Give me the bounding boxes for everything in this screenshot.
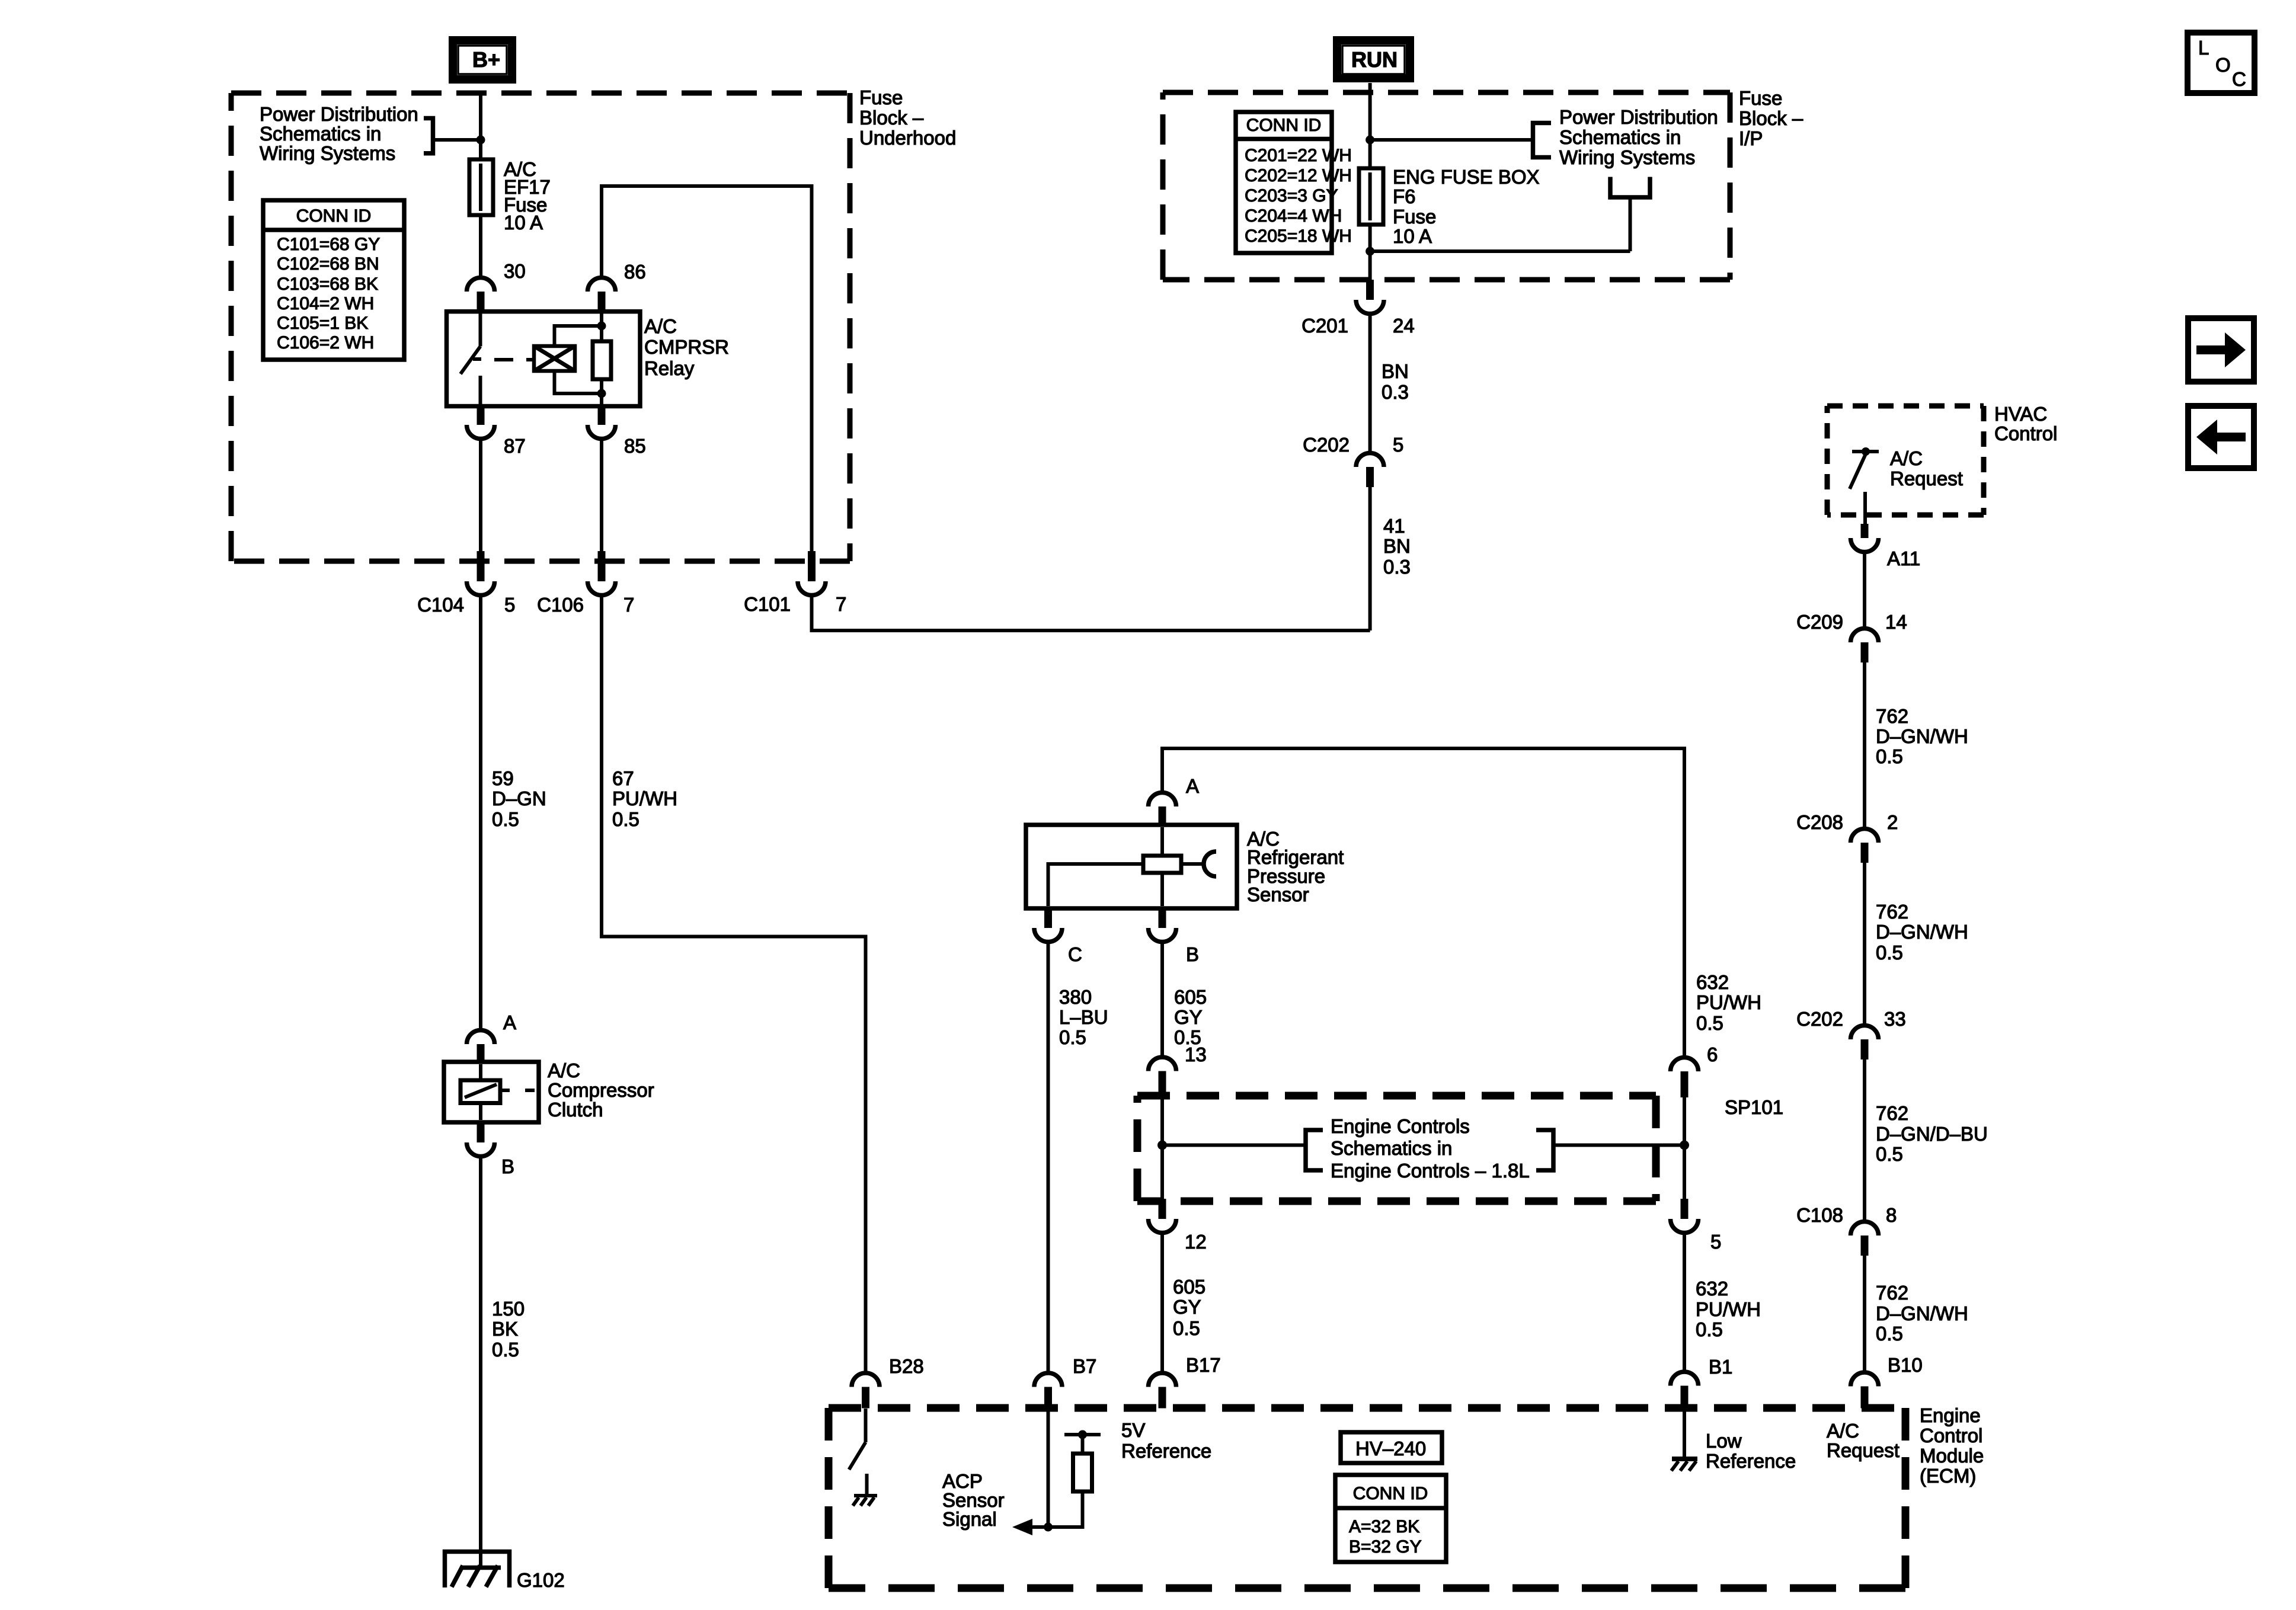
svg-text:33: 33 (1884, 1008, 1906, 1030)
svg-text:C105=1 BK: C105=1 BK (277, 313, 368, 333)
svg-text:B10: B10 (1888, 1354, 1923, 1376)
svg-text:B=32 GY: B=32 GY (1349, 1537, 1422, 1557)
wire fuse to pin 30 (479, 215, 482, 278)
svg-text:C106: C106 (537, 594, 584, 616)
connector B7 (1034, 1355, 1096, 1409)
svg-text:B7: B7 (1073, 1355, 1096, 1377)
svg-text:10 A: 10 A (504, 212, 543, 233)
svg-text:Sensor: Sensor (1247, 884, 1309, 905)
connector pin 85 (588, 405, 646, 457)
svg-text:605: 605 (1174, 986, 1207, 1008)
svg-text:Block –: Block – (1739, 107, 1803, 129)
svg-text:C106=2 WH: C106=2 WH (277, 333, 374, 353)
connector C202 pin 33 (1796, 1008, 1906, 1060)
svg-text:5V: 5V (1121, 1419, 1145, 1441)
wire B+ feed (479, 93, 482, 159)
node splice right junction (1680, 1141, 1689, 1150)
svg-text:C: C (1068, 943, 1082, 965)
wire pin 12 to B17 (1160, 1233, 1164, 1374)
svg-text:380: 380 (1059, 986, 1092, 1008)
label Fuse Block - Underhood (859, 87, 956, 149)
wire label 59 D-GN 0.5 (492, 767, 546, 830)
connector B10 (1851, 1354, 1923, 1409)
svg-text:Request: Request (1890, 468, 1963, 489)
HV-240 reference box (1341, 1432, 1442, 1463)
wire label 762 D-GN/WH 0.5 (2) (1876, 901, 1968, 964)
relay switch blade pin30-87 (461, 313, 481, 404)
relay actuator dashed link (494, 358, 534, 361)
label 5V Reference (1121, 1419, 1211, 1462)
svg-text:D–GN/WH: D–GN/WH (1876, 725, 1968, 747)
svg-text:A: A (503, 1012, 516, 1033)
svg-text:0.5: 0.5 (1696, 1318, 1723, 1340)
wire label 380 L-BU 0.5 (1059, 986, 1108, 1048)
svg-text:SP101: SP101 (1725, 1096, 1783, 1118)
wire sensor B to pin 13 (1160, 942, 1164, 1058)
B1 internal low reference ground (1671, 1409, 1697, 1471)
dashed box HVAC Control (1827, 406, 1984, 515)
svg-text:30: 30 (504, 260, 526, 282)
svg-text:C103=68 BK: C103=68 BK (277, 274, 378, 294)
svg-text:BN: BN (1382, 360, 1409, 382)
svg-text:D–GN/WH: D–GN/WH (1876, 1302, 1968, 1324)
svg-text:B+: B+ (472, 47, 500, 72)
CONN ID table (ECM) (1335, 1475, 1446, 1562)
svg-text:A/C: A/C (1890, 447, 1923, 469)
connector B28 (852, 1355, 924, 1409)
svg-text:Engine Controls: Engine Controls (1331, 1115, 1470, 1137)
label A/C Request (ECM) (1827, 1420, 1900, 1461)
A/C Compressor Clutch box (444, 1062, 539, 1122)
svg-text:59: 59 (492, 767, 514, 789)
svg-text:87: 87 (504, 435, 526, 457)
svg-text:Wiring Systems: Wiring Systems (260, 142, 395, 164)
svg-text:D–GN/D–BU: D–GN/D–BU (1876, 1123, 1988, 1145)
relay internal resistor (593, 312, 611, 404)
svg-text:13: 13 (1185, 1044, 1207, 1065)
svg-text:0.5: 0.5 (612, 808, 639, 830)
svg-text:Engine: Engine (1920, 1404, 1981, 1426)
connector pin 13 (1149, 1044, 1207, 1092)
wire C209 to C208 (1863, 662, 1866, 829)
wire label 632 PU/WH 0.5 (lower) (1696, 1278, 1761, 1340)
connector C106 pin 7 (537, 551, 634, 616)
label Fuse Block - I/P (1739, 87, 1803, 149)
switch B28 internal with ground (849, 1409, 878, 1506)
svg-text:Control: Control (1994, 422, 2057, 444)
svg-text:HV–240: HV–240 (1355, 1438, 1426, 1459)
svg-text:Fuse: Fuse (859, 87, 903, 108)
svg-text:Relay: Relay (644, 357, 695, 379)
svg-text:C205=18 WH: C205=18 WH (1245, 226, 1352, 246)
node splice left junction (1157, 1141, 1167, 1150)
bracket stub to fuse block internal (right lower) (1370, 177, 1650, 252)
navigation arrow right box (2188, 318, 2254, 382)
wire RUN feed (1368, 83, 1372, 168)
svg-text:(ECM): (ECM) (1920, 1465, 1976, 1487)
svg-text:0.5: 0.5 (1876, 1323, 1903, 1345)
wire label 67 PU/WH 0.5 (612, 767, 677, 830)
svg-text:C204=4 WH: C204=4 WH (1245, 206, 1342, 226)
svg-text:B28: B28 (889, 1355, 924, 1377)
bracket to Power Distribution (right upper) (1370, 123, 1551, 158)
svg-text:Control: Control (1920, 1425, 1982, 1446)
connector C101 pin 7 (744, 551, 846, 615)
svg-text:Signal: Signal (942, 1508, 997, 1530)
svg-text:Fuse: Fuse (1739, 87, 1782, 109)
relay coil solenoid box (534, 346, 575, 371)
svg-text:0.5: 0.5 (492, 1339, 519, 1361)
connector C208 pin 2 (1796, 811, 1898, 863)
label A/C CMPRSR Relay (644, 315, 729, 379)
wire label 605 GY 0.5 (upper) (1174, 986, 1207, 1048)
wire sensor C to B7 (1047, 942, 1050, 1374)
wire label 762 D-GN/D-BU 0.5 (1876, 1102, 1988, 1165)
svg-text:41: 41 (1383, 515, 1405, 537)
wire C208 to C202 (1863, 863, 1866, 1026)
wire 87 to C104 (479, 439, 482, 562)
dashed box Engine Control Module ECM (829, 1408, 1905, 1588)
svg-text:C209: C209 (1796, 611, 1843, 633)
connector C202 pin 5 (1303, 434, 1403, 487)
wire label 605 GY 0.5 (lower) (1173, 1276, 1205, 1339)
svg-text:I/P: I/P (1739, 127, 1763, 149)
svg-text:C104: C104 (417, 594, 464, 616)
svg-text:C201=22 WH: C201=22 WH (1245, 146, 1352, 165)
svg-text:0.3: 0.3 (1382, 381, 1409, 403)
svg-text:Power Distribution: Power Distribution (1559, 106, 1718, 128)
svg-text:0.3: 0.3 (1383, 556, 1411, 578)
svg-text:6: 6 (1707, 1044, 1718, 1065)
svg-text:C108: C108 (1796, 1204, 1843, 1226)
wire C101 down and across to RUN branch (812, 596, 1370, 631)
note Power Distribution Schematics in Wiring Systems (left) (260, 103, 418, 164)
wire clutch B to G102 (479, 1157, 482, 1569)
connector sensor pin B (1149, 908, 1200, 965)
svg-text:D–GN: D–GN (492, 788, 546, 809)
fuse F6 ENG FUSE BOX (1359, 168, 1383, 225)
connector clutch pin B (467, 1122, 515, 1177)
label A/C Refrigerant Pressure Sensor (1247, 828, 1344, 905)
svg-text:B: B (501, 1156, 514, 1177)
splice link wires to brackets (1162, 1130, 1684, 1170)
svg-text:BN: BN (1383, 535, 1411, 557)
wire F6 to C201 (1368, 225, 1372, 280)
svg-text:Fuse: Fuse (1393, 206, 1436, 228)
node coil bottom junction (597, 389, 606, 398)
svg-text:0.5: 0.5 (1696, 1012, 1723, 1034)
note Power Distribution Schematics in Wiring Systems (right) (1559, 106, 1718, 168)
label A/C Compressor Clutch (548, 1060, 654, 1121)
wire label 150 BK 0.5 (492, 1298, 525, 1361)
svg-text:CONN ID: CONN ID (1246, 116, 1322, 135)
svg-text:8: 8 (1886, 1204, 1897, 1226)
connector pin 30 (467, 260, 526, 312)
wire label 632 PU/WH 0.5 (upper) (1696, 971, 1761, 1034)
wire sensor top loop (1162, 748, 1684, 1058)
svg-text:C201: C201 (1302, 315, 1348, 337)
fuse EF17 (469, 159, 493, 215)
svg-text:HVAC: HVAC (1994, 403, 2047, 425)
connector clutch pin A (467, 1012, 517, 1062)
svg-text:85: 85 (624, 435, 646, 457)
node coil top junction (597, 322, 606, 331)
svg-text:7: 7 (836, 593, 846, 615)
connector pin 6 (1671, 1044, 1718, 1097)
svg-text:C104=2 WH: C104=2 WH (277, 294, 374, 313)
svg-text:12: 12 (1185, 1231, 1207, 1253)
svg-text:C202: C202 (1303, 434, 1350, 456)
svg-text:0.5: 0.5 (1876, 745, 1903, 767)
connector C104 pin 5 (417, 551, 515, 616)
svg-text:5: 5 (1393, 434, 1403, 456)
label A/C EF17 Fuse 10 A (504, 158, 551, 233)
wire label BN 0.3 (1382, 360, 1409, 403)
svg-text:C101=68 GY: C101=68 GY (277, 235, 380, 254)
wire C201 to C202 (1368, 314, 1372, 454)
wire pin6 through SP101 (1683, 1097, 1686, 1199)
svg-text:C202=12 WH: C202=12 WH (1245, 166, 1352, 185)
svg-text:ENG FUSE BOX: ENG FUSE BOX (1393, 166, 1540, 188)
svg-text:Reference: Reference (1706, 1450, 1796, 1472)
svg-text:762: 762 (1876, 1102, 1908, 1124)
connector A11 (1851, 524, 1921, 569)
wire label 762 D-GN/WH 0.5 (3) (1876, 1282, 1968, 1345)
label A/C Request (HVAC) (1890, 447, 1963, 489)
dashed box SP101 splice pack (1137, 1096, 1783, 1201)
wire A11 to C209 (1863, 552, 1866, 629)
svg-text:C208: C208 (1796, 811, 1843, 833)
svg-text:0.5: 0.5 (1876, 1143, 1903, 1165)
svg-text:F6: F6 (1393, 185, 1416, 207)
wire C106 down and over to B28 (602, 596, 866, 1374)
svg-text:A/C: A/C (644, 315, 677, 337)
svg-text:605: 605 (1173, 1276, 1205, 1298)
svg-text:CONN ID: CONN ID (1353, 1484, 1428, 1503)
connector C209 pin 14 (1796, 611, 1907, 662)
connector pin 86 (588, 261, 646, 312)
svg-text:762: 762 (1876, 901, 1908, 923)
svg-text:A/C: A/C (548, 1060, 580, 1081)
svg-text:7: 7 (623, 594, 634, 616)
label Low Reference (1706, 1430, 1796, 1472)
wire C202 down to cross wire (1368, 487, 1372, 630)
wire C104 to clutch A (479, 596, 482, 1031)
svg-text:CONN ID: CONN ID (296, 206, 372, 226)
svg-text:Module: Module (1920, 1445, 1984, 1467)
svg-text:0.5: 0.5 (1876, 942, 1903, 964)
svg-text:G102: G102 (517, 1569, 565, 1591)
svg-text:Schematics in: Schematics in (1331, 1137, 1452, 1159)
CONN ID table (I/P) (1236, 112, 1352, 253)
svg-text:Schematics in: Schematics in (1559, 126, 1681, 148)
connector C108 pin 8 (1796, 1204, 1897, 1256)
svg-text:67: 67 (612, 767, 634, 789)
node junction RUN wire lower (1366, 247, 1374, 256)
svg-text:24: 24 (1393, 315, 1415, 337)
relay coil wires (555, 326, 602, 393)
svg-text:PU/WH: PU/WH (1696, 991, 1761, 1013)
wire label 41 BN 0.3 (1383, 515, 1411, 578)
svg-text:A=32 BK: A=32 BK (1349, 1517, 1419, 1537)
wire C202 to C108 (1863, 1060, 1866, 1222)
label ACP Sensor Signal (942, 1470, 1005, 1530)
wire 85 to C106 (600, 439, 603, 562)
svg-text:D–GN/WH: D–GN/WH (1876, 921, 1968, 943)
svg-text:GY: GY (1173, 1296, 1201, 1318)
label HVAC Control (1994, 403, 2057, 444)
connector B17 (1149, 1354, 1221, 1409)
label Engine Control Module (ECM) (1920, 1404, 1984, 1487)
connector sensor pin A (1149, 775, 1200, 825)
svg-text:C102=68 BN: C102=68 BN (277, 254, 379, 274)
svg-text:PU/WH: PU/WH (1696, 1298, 1761, 1320)
svg-text:L–BU: L–BU (1059, 1006, 1108, 1028)
sensor internal element (1048, 827, 1217, 906)
navigation arrow left box (2188, 406, 2254, 468)
wire label 762 D-GN/WH 0.5 (1) (1876, 705, 1968, 767)
svg-text:C: C (2232, 68, 2246, 90)
svg-text:RUN: RUN (1351, 47, 1398, 72)
svg-text:Schematics in: Schematics in (260, 123, 381, 145)
svg-text:Underhood: Underhood (859, 127, 956, 149)
svg-text:5: 5 (1710, 1231, 1721, 1253)
connector C201 pin 24 (1302, 280, 1415, 337)
A/C Refrigerant Pressure Sensor box (1026, 825, 1237, 908)
dashed box Fuse Block - Underhood (231, 93, 850, 561)
svg-text:Low: Low (1706, 1430, 1742, 1452)
svg-text:A: A (1186, 775, 1199, 797)
svg-text:632: 632 (1696, 1278, 1728, 1299)
clutch coil element (461, 1064, 535, 1120)
svg-text:L: L (2198, 37, 2209, 59)
label ENG FUSE BOX F6 Fuse 10 A (1393, 166, 1540, 247)
note Engine Controls Schematics in Engine Controls - 1.8L (1331, 1115, 1530, 1182)
B+ power symbol (453, 40, 512, 79)
node junction on B+ wire (477, 136, 485, 145)
svg-text:C202: C202 (1796, 1008, 1843, 1030)
svg-text:O: O (2215, 54, 2231, 76)
svg-text:Request: Request (1827, 1439, 1900, 1461)
svg-text:B: B (1186, 943, 1199, 965)
ground G102 (445, 1552, 565, 1592)
svg-text:762: 762 (1876, 705, 1908, 727)
svg-text:Compressor: Compressor (548, 1079, 654, 1101)
svg-text:150: 150 (492, 1298, 525, 1320)
svg-text:BK: BK (492, 1318, 518, 1340)
svg-text:Reference: Reference (1121, 1440, 1211, 1462)
dashed box Fuse Block - I/P (1163, 92, 1730, 280)
svg-text:0.5: 0.5 (1173, 1317, 1200, 1339)
svg-text:10 A: 10 A (1393, 225, 1432, 247)
connector B1 (1671, 1356, 1733, 1409)
svg-text:Power Distribution: Power Distribution (260, 103, 418, 125)
wire C108 to B10 (1863, 1256, 1866, 1372)
svg-text:762: 762 (1876, 1282, 1908, 1304)
connector pin 5 (SP101) (1671, 1199, 1722, 1253)
svg-text:5: 5 (504, 594, 515, 616)
svg-text:Clutch: Clutch (548, 1099, 603, 1121)
B7 internal 5V reference circuit (1012, 1409, 1101, 1535)
svg-text:A11: A11 (1887, 548, 1920, 569)
relay A/C CMPRSR Relay box (447, 312, 641, 406)
node junction RUN wire upper (1366, 136, 1374, 145)
LOC reference box (2188, 33, 2255, 93)
svg-text:0.5: 0.5 (1059, 1026, 1086, 1048)
svg-text:632: 632 (1696, 971, 1729, 993)
svg-text:GY: GY (1174, 1006, 1203, 1028)
RUN power symbol (1337, 40, 1410, 78)
switch A/C Request in HVAC (1850, 447, 1879, 524)
wire 86 loop up and over to C101 (602, 186, 812, 561)
connector sensor pin C (1034, 908, 1082, 965)
svg-text:Engine Controls – 1.8L: Engine Controls – 1.8L (1331, 1160, 1530, 1182)
svg-text:Block –: Block – (859, 107, 924, 129)
svg-text:2: 2 (1887, 811, 1898, 833)
svg-text:Wiring Systems: Wiring Systems (1559, 146, 1695, 168)
connector pin 12 (1149, 1199, 1207, 1253)
connector pin 87 (467, 405, 526, 457)
svg-text:C101: C101 (744, 593, 791, 615)
svg-text:CMPRSR: CMPRSR (644, 336, 729, 358)
svg-text:A/C: A/C (1827, 1420, 1859, 1442)
svg-text:14: 14 (1885, 611, 1907, 633)
wire pin 5 to B1 (1683, 1233, 1686, 1372)
svg-text:PU/WH: PU/WH (612, 788, 677, 809)
wire pin13 through SP101 (1160, 1092, 1164, 1199)
svg-text:0.5: 0.5 (492, 808, 519, 830)
CONN ID table (underhood) (263, 200, 404, 360)
svg-text:B17: B17 (1186, 1354, 1221, 1376)
bracket to B+ wire (424, 119, 481, 153)
svg-text:86: 86 (624, 261, 646, 283)
svg-text:B1: B1 (1709, 1356, 1732, 1378)
svg-text:C203=3 GY: C203=3 GY (1245, 186, 1338, 206)
